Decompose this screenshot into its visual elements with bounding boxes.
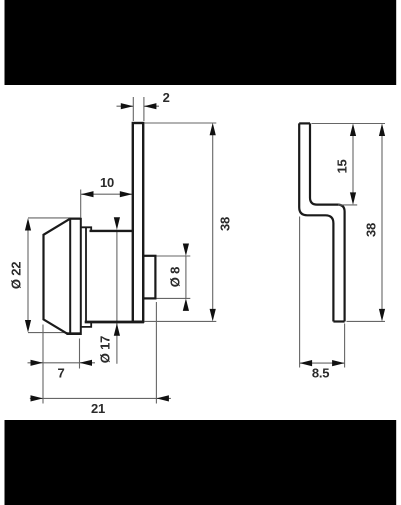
boss (Ø8 hub): [143, 256, 155, 299]
svg-text:38: 38: [363, 223, 378, 237]
dim 2 line: [117, 105, 160, 107]
svg-text:Ø 17: Ø 17: [98, 336, 113, 363]
lock body bottom edge: [85, 321, 144, 324]
svg-text:10: 10: [100, 175, 114, 190]
svg-text:2: 2: [163, 90, 170, 105]
dim Ø8 extension lines: [157, 256, 191, 298]
dim Ø22 extension lines: [28, 218, 81, 333]
lock head (trapezoid front face): [44, 219, 70, 334]
dim 38 right extension line: [347, 320, 386, 322]
flange (Ø22 washer): [70, 219, 81, 334]
top black banner: [5, 0, 397, 85]
dim 38 extension lines: [145, 123, 217, 321]
dim Ø17 line: [116, 230, 118, 364]
dim 2 extension lines: [133, 97, 144, 121]
dim 8.5 extension lines: [300, 217, 345, 368]
dim 38 right arrows: [379, 124, 385, 137]
bracket outer contour: [299, 123, 333, 321]
dim 2 arrows: [121, 103, 134, 109]
lock body (Ø17 barrel) left edge: [85, 227, 87, 321]
collar ring top notch: [81, 227, 91, 231]
svg-text:15: 15: [335, 159, 350, 173]
dim 15 arrows: [350, 124, 356, 137]
collar ring bottom notch: [81, 322, 91, 327]
dim Ø17 arrows: [114, 217, 120, 230]
dim Ø8 arrows: [183, 244, 189, 257]
svg-text:7: 7: [57, 366, 64, 381]
dim 7 line: [28, 362, 96, 364]
dim 8.5 arrows: [300, 360, 313, 366]
top extension line right view: [312, 123, 386, 125]
bracket top edge: [299, 122, 310, 124]
dim Ø22 arrows: [25, 218, 31, 231]
flange bottom edge extension to slope: [67, 333, 71, 335]
svg-text:Ø 8: Ø 8: [167, 267, 182, 287]
bracket inner contour: [310, 123, 345, 321]
dim 15 mid extension line: [338, 204, 357, 206]
svg-text:8.5: 8.5: [312, 365, 329, 380]
dim 7 arrows: [31, 360, 44, 366]
bracket bottom edge: [333, 320, 344, 322]
dim 8.5 line: [300, 362, 345, 364]
dim 10 line: [81, 193, 132, 195]
dim 38 right line: [381, 136, 383, 310]
dim 21 arrows: [31, 395, 44, 401]
dim 10 arrows: [81, 191, 94, 197]
cam plate (2 thick, 38 tall): [133, 123, 143, 322]
dim 21 extension lines: [43, 302, 156, 404]
dim 38 arrows: [210, 123, 216, 136]
svg-text:38: 38: [218, 217, 233, 231]
dim 7 extension lines: [43, 325, 80, 369]
bottom black banner: [5, 420, 397, 505]
svg-text:Ø 22: Ø 22: [9, 262, 24, 289]
dim 10 extension line: [80, 190, 82, 219]
dim Ø8 line: [185, 256, 187, 298]
dim Ø22 line: [27, 230, 29, 321]
dim 21 line: [30, 397, 171, 399]
dim 38 line: [212, 135, 214, 309]
svg-text:21: 21: [91, 401, 105, 416]
lock body top edge: [90, 230, 133, 232]
dim 15 line: [352, 136, 354, 193]
